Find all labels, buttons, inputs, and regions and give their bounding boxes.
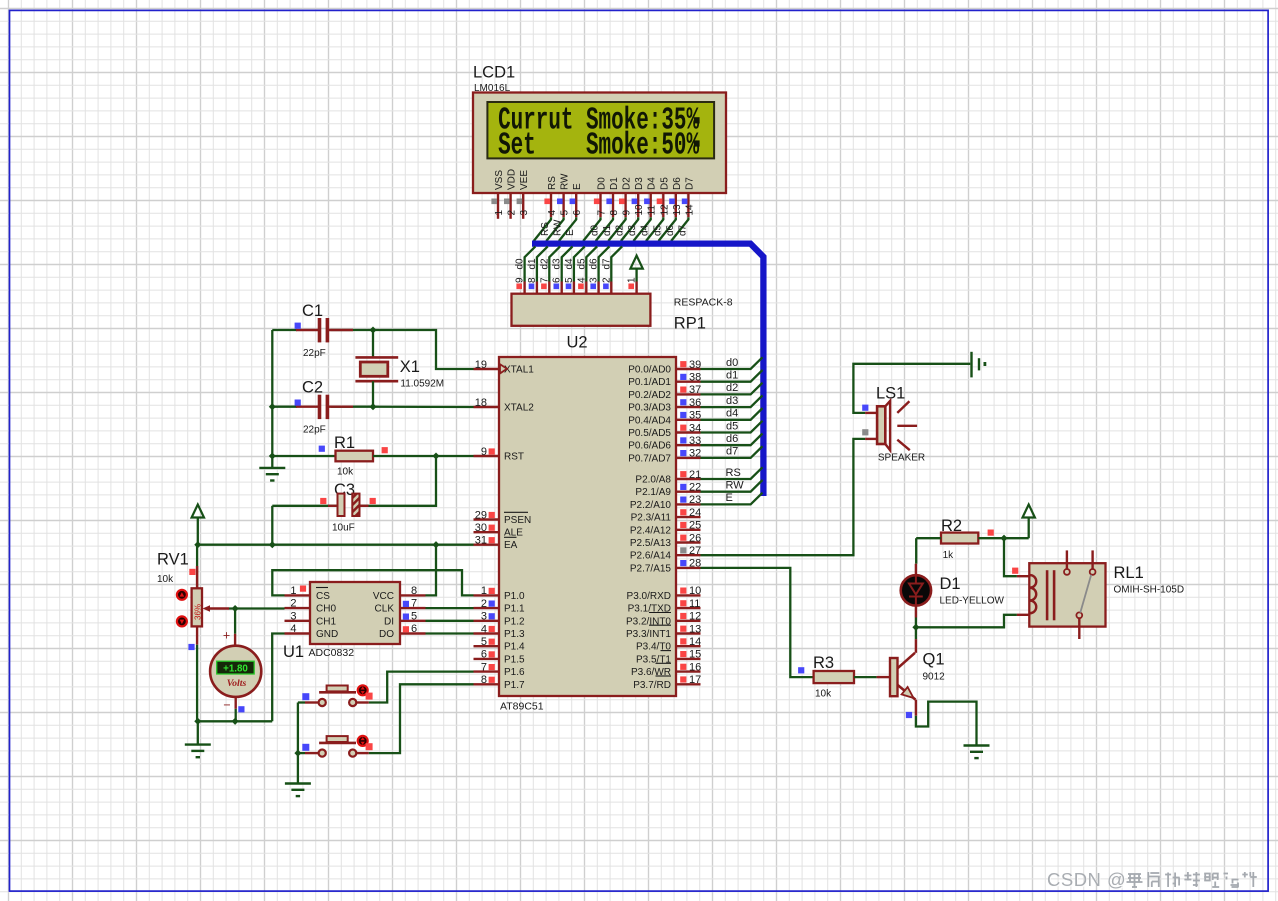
svg-text:D1: D1 <box>609 177 620 190</box>
LED D1 <box>915 564 917 575</box>
svg-text:CLK: CLK <box>375 604 395 615</box>
wire bus to RP1 pin 7 (net d2) <box>549 246 560 281</box>
wire LCD pin 13 to bus (net d6) <box>659 217 676 241</box>
node RV1 / ground rail <box>194 718 201 725</box>
svg-text:21: 21 <box>689 469 701 481</box>
wire button K1 left to spine <box>298 701 305 703</box>
svg-text:P0.6/AD6: P0.6/AD6 <box>628 441 671 452</box>
svg-text:1: 1 <box>481 585 487 597</box>
wire U2 pin 35 to bus (net d4) <box>701 408 763 420</box>
svg-text:E: E <box>726 492 733 504</box>
svg-text:d6: d6 <box>726 433 738 445</box>
svg-text:C2: C2 <box>302 379 323 397</box>
U2 right pin 34 (P0.5/AD5) <box>676 431 701 433</box>
svg-text:d1: d1 <box>602 224 613 236</box>
svg-text:36: 36 <box>689 397 701 409</box>
svg-text:LCD1: LCD1 <box>473 64 515 82</box>
svg-text:22pF: 22pF <box>303 348 326 359</box>
svg-text:17: 17 <box>689 674 701 686</box>
wire U2 pin 38 to bus (net d1) <box>701 370 763 382</box>
svg-text:3: 3 <box>481 611 487 623</box>
svg-text:22pF: 22pF <box>303 425 326 436</box>
wire bus to RP1 pin 9 (net d0) <box>525 246 536 281</box>
U2 right pin 13 (P3.3/INT1) <box>676 632 701 634</box>
wire RV1 bottom to ground rail <box>196 626 198 644</box>
svg-text:d0: d0 <box>590 224 601 236</box>
U2 right pin 39 (P0.0/AD0) <box>676 368 701 370</box>
wire U2 pin 33 to bus (net d6) <box>701 434 763 446</box>
svg-text:P3.0/RXD: P3.0/RXD <box>627 591 671 602</box>
voltmeter probe wire - <box>234 697 236 709</box>
svg-text:1k: 1k <box>943 550 955 561</box>
svg-text:13: 13 <box>672 204 683 216</box>
svg-text:P1.1: P1.1 <box>504 604 525 615</box>
U1 left pin 2 (CH0) <box>285 607 311 609</box>
svg-text:16: 16 <box>689 661 701 673</box>
svg-text:R1: R1 <box>334 434 355 452</box>
svg-text:d2: d2 <box>726 382 738 394</box>
U2 left pin 19 (XTAL1) <box>474 368 500 370</box>
wire LCD pin 7 to bus (net d0) <box>583 217 600 241</box>
wire LCD pin 8 to bus (net d1) <box>596 217 613 241</box>
svg-text:15: 15 <box>689 649 701 661</box>
svg-text:P0.4/AD4: P0.4/AD4 <box>628 415 671 426</box>
svg-text:P1.5: P1.5 <box>504 654 525 665</box>
svg-text:D0: D0 <box>597 177 608 190</box>
svg-text:26: 26 <box>689 532 701 544</box>
svg-text:RV1: RV1 <box>157 551 189 569</box>
U2 right pin 15 (P3.5/T1) <box>676 658 701 660</box>
node RST junction <box>432 452 439 459</box>
wire VCC rail to U2 pin 31 (EA) <box>198 544 474 546</box>
svg-text:d7: d7 <box>726 446 738 458</box>
svg-text:AT89C51: AT89C51 <box>500 701 544 713</box>
svg-text:35: 35 <box>689 410 701 422</box>
U2 XTAL1 clock input marker <box>500 364 507 373</box>
svg-text:VSS: VSS <box>494 170 505 190</box>
svg-text:−: − <box>223 698 230 712</box>
ground (speaker, sideways) <box>970 352 972 378</box>
svg-text:3: 3 <box>519 210 530 216</box>
U2 right pin 33 (P0.6/AD6) <box>676 444 701 446</box>
svg-text:P0.5/AD5: P0.5/AD5 <box>628 428 671 439</box>
U2 right pin 17 (P3.7/RD) <box>676 683 701 685</box>
wire speaker top to ground <box>865 412 877 414</box>
U2 left pin 4 (P1.3) <box>474 632 500 634</box>
relay coil terminals <box>1017 575 1031 577</box>
wire U2 pin 28 to R3 <box>701 568 814 677</box>
svg-text:7: 7 <box>411 598 417 610</box>
ground (buttons) <box>297 753 299 783</box>
svg-text:C1: C1 <box>302 302 323 320</box>
voltmeter probe wire + <box>234 609 236 634</box>
svg-text:CH0: CH0 <box>316 604 336 615</box>
svg-text:12: 12 <box>659 204 670 216</box>
U2 left pin 5 (P1.4) <box>474 645 500 647</box>
svg-text:Q1: Q1 <box>923 651 945 669</box>
U2 left pin 2 (P1.1) <box>474 607 500 609</box>
wire R2 left to LED <box>916 537 941 539</box>
svg-text:d3: d3 <box>627 224 638 236</box>
svg-text:P1.4: P1.4 <box>504 642 525 653</box>
wire U1 DO to U2 P1.3 <box>426 632 474 634</box>
svg-text:EA: EA <box>504 540 518 551</box>
U2 right pin 25 (P2.4/A12) <box>676 529 701 531</box>
svg-text:4: 4 <box>290 623 296 635</box>
svg-text:D3: D3 <box>634 177 645 190</box>
U2 right pin 36 (P0.3/AD3) <box>676 406 701 408</box>
svg-text:d2: d2 <box>539 258 550 270</box>
svg-text:P0.2/AD2: P0.2/AD2 <box>628 390 671 401</box>
microcontroller U2 body (AT89C51) <box>499 357 676 696</box>
svg-text:10uF: 10uF <box>332 523 355 534</box>
svg-text:Set Smoke:50%: Set Smoke:50% <box>498 128 699 163</box>
wire Q1 emitter to ground <box>915 700 917 716</box>
U2 left pin 8 (P1.7) <box>474 683 500 685</box>
resistor pack RP1 body <box>512 294 651 326</box>
svg-text:d6: d6 <box>665 224 676 236</box>
svg-text:RST: RST <box>504 452 524 463</box>
svg-text:RW: RW <box>553 219 564 236</box>
node VCC rail / C3 <box>269 541 276 548</box>
wire XTAL1 net to U2 pin 19 <box>373 330 474 369</box>
svg-text:VCC: VCC <box>373 591 394 602</box>
svg-text:38: 38 <box>689 372 701 384</box>
svg-text:DO: DO <box>379 629 394 640</box>
svg-text:P2.6/A14: P2.6/A14 <box>630 551 672 562</box>
wire LED cathode to collector node <box>915 606 917 618</box>
svg-text:2: 2 <box>290 598 296 610</box>
svg-text:d4: d4 <box>640 224 651 236</box>
svg-text:d3: d3 <box>726 395 738 407</box>
U2 left pin 6 (P1.5) <box>474 658 500 660</box>
svg-text:GND: GND <box>316 629 338 640</box>
svg-text:37: 37 <box>689 384 701 396</box>
crystal X1 <box>372 330 374 357</box>
svg-text:OMIH-SH-105D: OMIH-SH-105D <box>1114 585 1185 596</box>
svg-text:5: 5 <box>560 210 571 216</box>
push button K2 <box>319 750 326 757</box>
svg-text:RL1: RL1 <box>1114 564 1144 582</box>
svg-text:14: 14 <box>684 204 695 216</box>
svg-text:d7: d7 <box>601 258 612 270</box>
wire RV1 wiper to U1 CH0 <box>229 607 285 609</box>
svg-text:14: 14 <box>689 636 701 648</box>
svg-text:R3: R3 <box>813 654 834 672</box>
node voltmeter minus / ground rail <box>232 718 239 725</box>
transistor Q1 (9012 PNP) <box>890 658 898 696</box>
svg-text:2: 2 <box>507 210 518 216</box>
watermark <box>1047 869 1126 891</box>
LCD LCD1 body <box>473 93 726 194</box>
svg-text:D1: D1 <box>940 575 961 593</box>
svg-text:11.0592M: 11.0592M <box>400 379 444 390</box>
wire Q1 collector to LED node <box>915 627 917 639</box>
U2 left pin 29 (PSEN) <box>474 518 500 520</box>
svg-text:D6: D6 <box>672 177 683 190</box>
U2 right pin 21 (P2.0/A8) <box>676 478 701 480</box>
svg-text:U1: U1 <box>283 643 304 661</box>
svg-text:10: 10 <box>634 204 645 216</box>
svg-text:P2.2/A10: P2.2/A10 <box>630 500 672 511</box>
svg-text:11: 11 <box>647 205 658 216</box>
svg-text:10k: 10k <box>815 689 832 700</box>
svg-text:P2.1/A9: P2.1/A9 <box>635 487 671 498</box>
svg-text:8: 8 <box>609 210 620 216</box>
svg-text:2: 2 <box>481 598 487 610</box>
wire R2 right to power/relay <box>978 537 1028 539</box>
svg-text:XTAL1: XTAL1 <box>504 365 534 376</box>
svg-text:P1.7: P1.7 <box>504 680 525 691</box>
svg-text:d0: d0 <box>515 258 526 270</box>
wire bus to RP1 pin 8 (net d1) <box>537 246 548 281</box>
svg-text:E: E <box>572 183 583 190</box>
power arrow (VCC) right <box>1023 505 1035 518</box>
svg-text:31: 31 <box>475 535 487 547</box>
wire bus to RP1 pin 2 (net d7) <box>611 246 622 281</box>
svg-text:D7: D7 <box>684 177 695 190</box>
U2 left pin 3 (P1.2) <box>474 620 500 622</box>
svg-text:7: 7 <box>597 210 608 216</box>
U2 right pin 27 (P2.6/A14) <box>676 554 701 556</box>
svg-text:10k: 10k <box>337 467 354 478</box>
voltmeter body <box>210 646 261 697</box>
svg-text:P3.7/RD: P3.7/RD <box>633 680 671 691</box>
wire U2 pin 21 to bus (net RS) <box>701 467 763 479</box>
svg-text:d0: d0 <box>726 357 738 369</box>
U2 left pin 30 (ALE) <box>474 531 500 533</box>
svg-text:34: 34 <box>689 422 701 434</box>
svg-text:+1.80: +1.80 <box>223 664 248 675</box>
svg-text:22: 22 <box>689 482 701 494</box>
svg-text:5: 5 <box>411 610 417 622</box>
ground rail bottom left <box>197 720 272 722</box>
wire LCD pin 9 to bus (net d2) <box>608 217 625 241</box>
wire LCD pin 5 to bus (net RW) <box>546 217 563 241</box>
power arrow at RP1 pin 1 <box>630 256 642 269</box>
svg-text:d6: d6 <box>589 258 600 270</box>
U2 right pin 35 (P0.4/AD4) <box>676 419 701 421</box>
svg-text:RW: RW <box>726 480 745 492</box>
U2 right pin 32 (P0.7/AD7) <box>676 457 701 459</box>
svg-text:RP1: RP1 <box>674 315 706 333</box>
node X1/C2 junction <box>369 403 376 410</box>
wire speaker bottom to U2 pin 27 <box>865 438 877 440</box>
svg-text:6: 6 <box>572 210 583 216</box>
svg-text:RS: RS <box>540 222 551 236</box>
bus (blue) from LCD to RP1 and U2 <box>532 244 763 496</box>
node wiper / voltmeter <box>232 605 239 612</box>
U2 right pin 24 (P2.3/A11) <box>676 516 701 518</box>
wire U1 CS to U2 P1.0 <box>272 570 473 595</box>
wire LCD pin 11 to bus (net d4) <box>634 217 651 241</box>
svg-text:P0.3/AD3: P0.3/AD3 <box>628 403 671 414</box>
svg-text:3: 3 <box>290 610 296 622</box>
svg-text:P0.1/AD1: P0.1/AD1 <box>628 377 671 388</box>
RV1 adjust buttons <box>177 590 187 600</box>
svg-text:d1: d1 <box>726 370 738 382</box>
node LED / Q1 / relay coil <box>912 624 919 631</box>
U1 right pin 6 (DO) <box>400 632 426 634</box>
svg-text:E: E <box>565 229 576 236</box>
ADC U1 body (ADC0832) <box>310 582 400 644</box>
LCD screen <box>487 102 714 158</box>
svg-text:X1: X1 <box>400 358 420 376</box>
wire U2 pin 34 to bus (net d5) <box>701 421 763 433</box>
U2 left pin 9 (RST) <box>474 455 500 457</box>
relay RL1 switch <box>1064 569 1070 575</box>
svg-text:27: 27 <box>689 545 701 557</box>
svg-text:P0.7/AD7: P0.7/AD7 <box>628 453 671 464</box>
wire collector node to relay coil bottom <box>916 615 1017 628</box>
svg-text:19: 19 <box>475 359 487 371</box>
svg-text:9012: 9012 <box>923 672 946 683</box>
svg-text:8: 8 <box>411 585 417 597</box>
svg-text:CS: CS <box>316 591 330 602</box>
svg-text:4: 4 <box>481 623 487 635</box>
U1 right pin 5 (DI) <box>400 620 426 622</box>
svg-text:8: 8 <box>481 674 487 686</box>
U2 left pin 1 (P1.0) <box>474 594 500 596</box>
wire relay coil top to power node <box>1004 538 1017 576</box>
svg-text:P1.6: P1.6 <box>504 667 525 678</box>
U2 right pin 37 (P0.2/AD2) <box>676 393 701 395</box>
svg-text:39: 39 <box>689 359 701 371</box>
svg-text:d2: d2 <box>615 224 626 236</box>
svg-text:7: 7 <box>481 661 487 673</box>
svg-text:1: 1 <box>494 210 505 216</box>
svg-text:5: 5 <box>481 636 487 648</box>
svg-text:DI: DI <box>384 616 394 627</box>
svg-text:P3.3/INT1: P3.3/INT1 <box>626 629 671 640</box>
U2 right pin 14 (P3.4/T0) <box>676 645 701 647</box>
voltmeter display +1.80 <box>217 661 255 674</box>
svg-text:23: 23 <box>689 494 701 506</box>
wire LCD pin 4 to bus (net RS) <box>534 217 551 241</box>
svg-text:P2.7/A15: P2.7/A15 <box>630 563 672 574</box>
speaker LS1 <box>877 406 885 444</box>
svg-text:XTAL2: XTAL2 <box>504 403 534 414</box>
wire R3 to Q1 base <box>854 676 877 678</box>
node VCC rail / RV1 <box>194 541 201 548</box>
svg-text:D4: D4 <box>647 177 658 190</box>
wire U2 pin 36 to bus (net d3) <box>701 395 763 407</box>
svg-text:P2.0/A8: P2.0/A8 <box>635 475 671 486</box>
svg-text:RW: RW <box>560 173 571 190</box>
U2 left pin 7 (P1.6) <box>474 670 500 672</box>
U2 right pin 26 (P2.5/A13) <box>676 541 701 543</box>
wire button K2 left to ground <box>298 752 305 754</box>
wire LCD pin 6 to bus (net E) <box>559 217 576 241</box>
wire U2 pin 23 to bus (net E) <box>701 493 763 505</box>
U2 right pin 11 (P3.1/TXD) <box>676 607 701 609</box>
U2 right pin 23 (P2.2/A10) <box>676 503 701 505</box>
svg-text:d5: d5 <box>576 258 587 270</box>
U1 right pin 8 (VCC) <box>400 594 426 596</box>
svg-text:25: 25 <box>689 520 701 532</box>
svg-text:6: 6 <box>411 623 417 635</box>
U2 left pin 31 (EA) <box>474 544 500 546</box>
node C1/XTAL1 junction <box>369 326 376 333</box>
RV1 wiper arrow <box>203 605 211 612</box>
svg-text:33: 33 <box>689 435 701 447</box>
wire bus to RP1 pin 4 (net d5) <box>586 246 597 281</box>
svg-text:d4: d4 <box>564 258 575 270</box>
svg-text:RESPACK-8: RESPACK-8 <box>674 297 733 309</box>
svg-text:9: 9 <box>622 210 633 216</box>
watermark CJK text (vector approximation) <box>1128 873 1141 875</box>
svg-text:1: 1 <box>290 585 296 597</box>
wire U1 GND to ground rail <box>272 634 284 722</box>
U1 left pin 3 (CH1) <box>285 620 311 622</box>
wire U2 pin 32 to bus (net d7) <box>701 446 763 458</box>
svg-text:9: 9 <box>481 446 487 458</box>
svg-text:18: 18 <box>475 397 487 409</box>
wire C3 to RST <box>360 456 436 506</box>
wire RST net to U2 pin 9 <box>436 455 474 457</box>
svg-text:12: 12 <box>689 611 701 623</box>
push button K1 <box>319 699 326 706</box>
svg-text:ADC0832: ADC0832 <box>309 647 355 659</box>
wire LCD pin 12 to bus (net d5) <box>646 217 663 241</box>
wire bus to RP1 pin 3 (net d6) <box>599 246 610 281</box>
svg-text:24: 24 <box>689 507 701 519</box>
svg-text:P1.2: P1.2 <box>504 616 525 627</box>
U2 right pin 28 (P2.7/A15) <box>676 567 701 569</box>
wire bus to RP1 pin 6 (net d3) <box>562 246 573 281</box>
node C2 spine junction <box>269 403 276 410</box>
wire bus to RP1 pin 5 (net d4) <box>574 246 585 281</box>
wire C3 left to VCC rail <box>271 506 273 545</box>
wire U1 VCC to rail <box>426 545 437 596</box>
svg-text:13: 13 <box>689 623 701 635</box>
node VCC rail / U1 VCC <box>432 541 439 548</box>
U2 right pin 22 (P2.1/A9) <box>676 491 701 493</box>
svg-text:11: 11 <box>689 598 700 610</box>
wire button K2 right to U2 P1.7 <box>369 684 474 753</box>
U2 right pin 10 (P3.0/RXD) <box>676 594 701 596</box>
svg-text:d1: d1 <box>527 258 538 270</box>
node R2 / relay coil / power <box>1000 535 1007 542</box>
svg-text:RS: RS <box>726 467 741 479</box>
node R1 spine junction <box>269 452 276 459</box>
svg-text:32: 32 <box>689 448 701 460</box>
potentiometer RV1 <box>196 545 198 589</box>
svg-text:Volts: Volts <box>227 678 247 689</box>
power arrow (VCC) left <box>192 505 204 518</box>
relay RL1 body <box>1029 563 1105 626</box>
svg-text:30: 30 <box>475 522 487 534</box>
ground (crystal caps / R1) <box>271 456 273 468</box>
svg-text:29: 29 <box>475 509 487 521</box>
svg-text:10k: 10k <box>157 574 174 585</box>
svg-text:SPEAKER: SPEAKER <box>878 453 925 464</box>
svg-text:P1.3: P1.3 <box>504 629 525 640</box>
svg-text:+: + <box>223 629 230 643</box>
wire U1 DI to U2 P1.2 <box>426 620 474 622</box>
relay RL1 coil <box>1030 575 1036 588</box>
svg-text:VEE: VEE <box>519 170 530 190</box>
wire button K1 right to U2 P1.6 <box>369 672 474 703</box>
wire LCD pin 14 to bus (net d7) <box>671 217 688 241</box>
node buttons ground junction <box>294 750 301 757</box>
svg-text:RS: RS <box>547 176 558 190</box>
ground (Q1 emitter) <box>964 744 990 746</box>
svg-text:P0.0/AD0: P0.0/AD0 <box>628 365 671 376</box>
svg-text:VDD: VDD <box>507 169 518 190</box>
svg-text:LED-YELLOW: LED-YELLOW <box>940 596 1005 607</box>
svg-text:D5: D5 <box>659 177 670 190</box>
